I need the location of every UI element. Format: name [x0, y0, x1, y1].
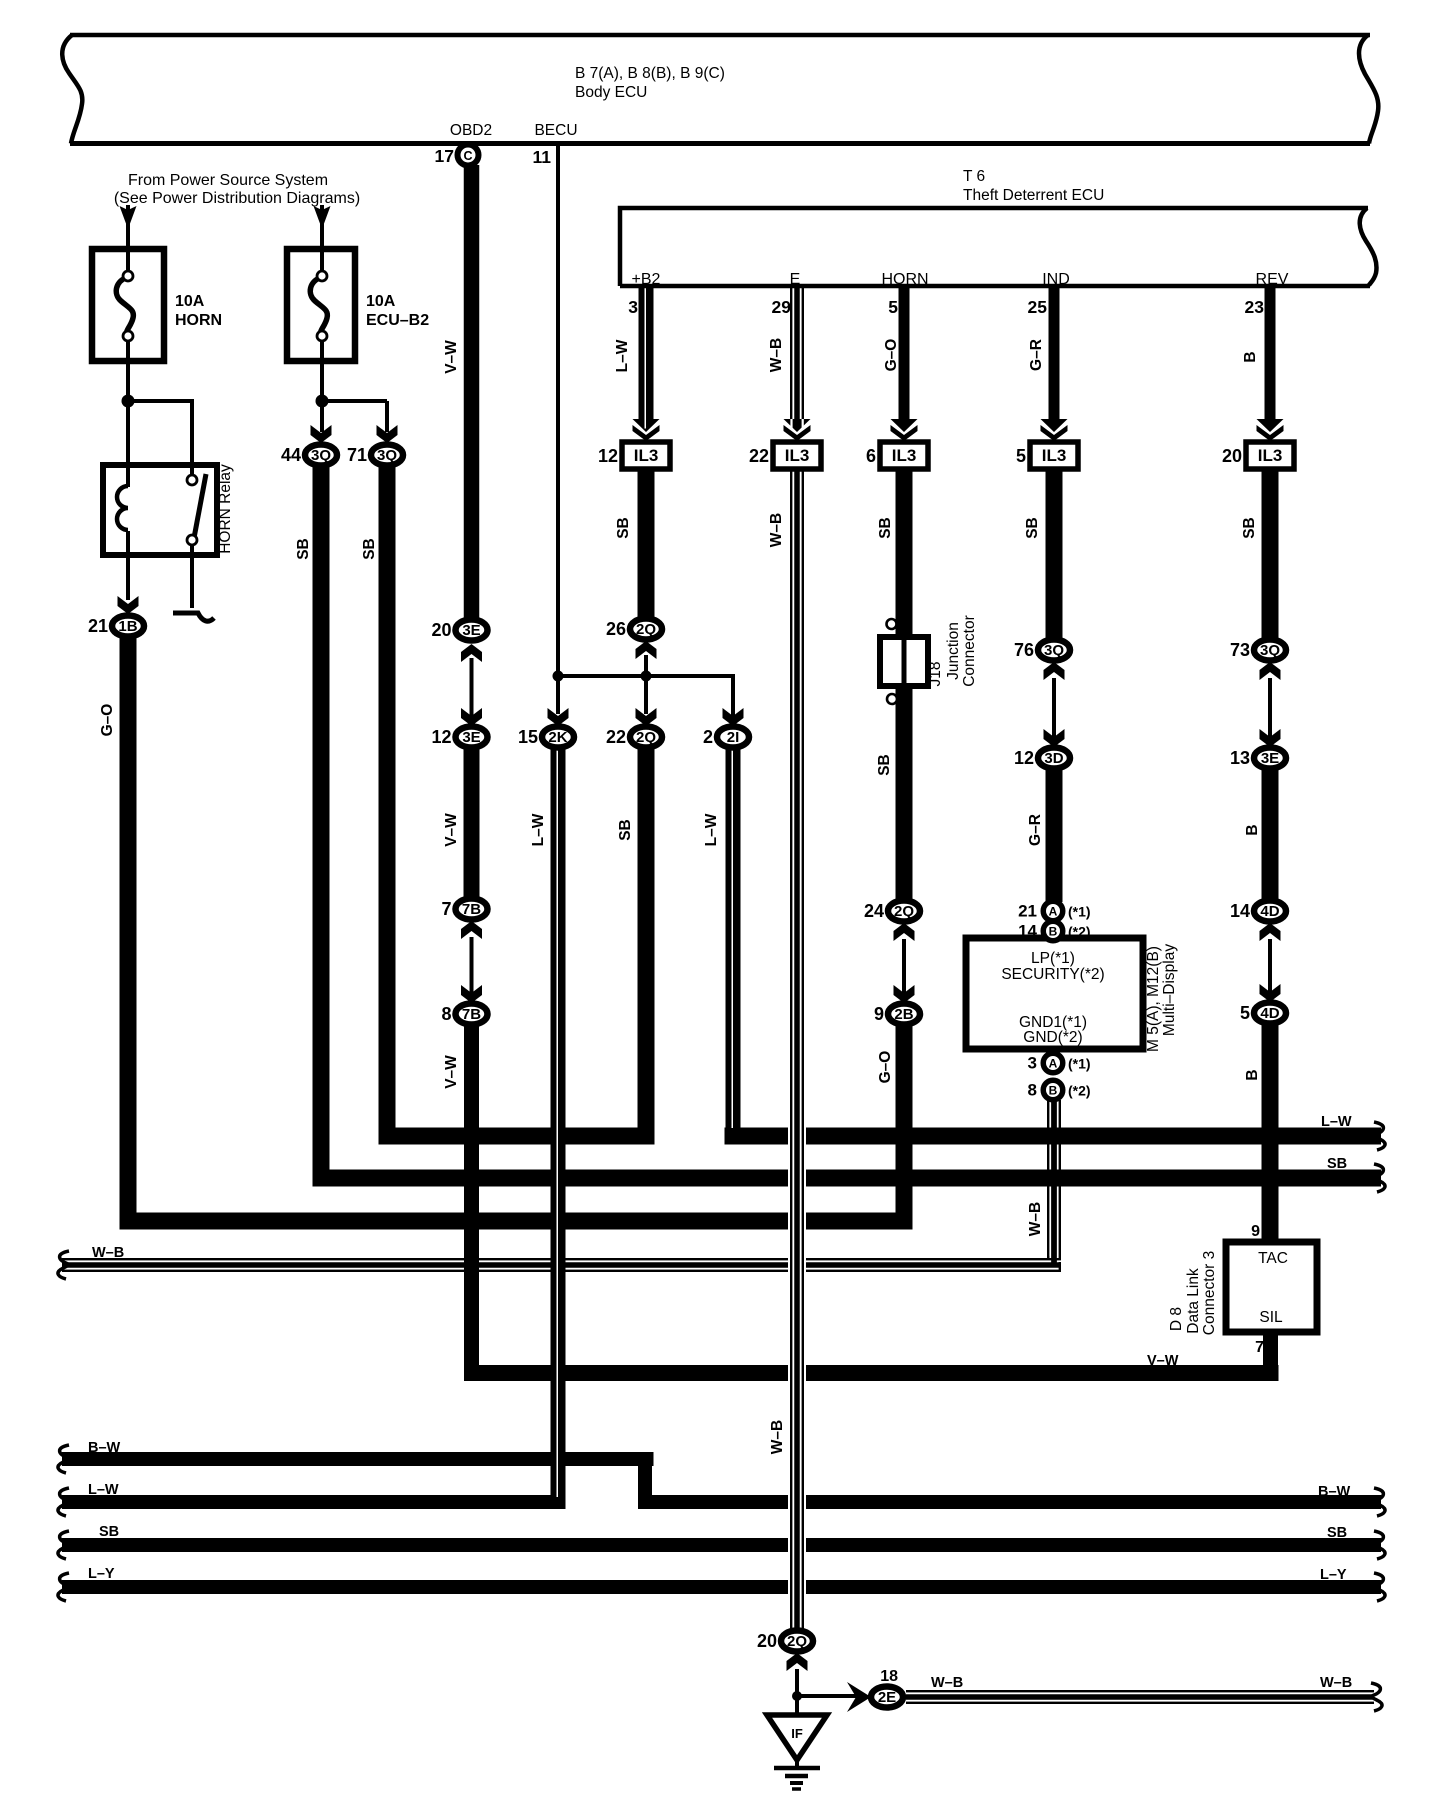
arrow into 20 IL3	[1257, 419, 1284, 432]
arrow down into 12 3D	[1044, 729, 1065, 747]
svg-text:(*2): (*2)	[1068, 924, 1091, 940]
svg-text:18: 18	[880, 1668, 898, 1685]
wire G-O stub HORN pin 5	[899, 286, 910, 420]
arrow into 22 IL3	[784, 419, 811, 432]
wire W-B ground bus horizontal	[62, 1258, 1061, 1260]
wire SB bus right wavy end	[1374, 1164, 1385, 1192]
wire L-W from 2 2I to L-W bus	[726, 748, 741, 1145]
svg-text:B: B	[1049, 1083, 1058, 1097]
svg-text:29: 29	[772, 297, 792, 317]
arrow into 44 3Q	[311, 425, 332, 443]
wire V-W 12 3E to 7 7B	[464, 746, 480, 900]
wire W-B from 2E to right edge	[906, 1690, 1374, 1692]
Body ECU box bottom edge	[70, 141, 1370, 146]
connector 12 3E	[456, 727, 488, 748]
svg-text:B: B	[1242, 351, 1259, 362]
svg-text:V–W: V–W	[443, 340, 460, 374]
wire G-R 12 3D to 21 A	[1046, 769, 1063, 902]
svg-text:11: 11	[533, 147, 552, 167]
svg-text:G–O: G–O	[877, 1051, 894, 1084]
svg-text:IF: IF	[791, 1726, 803, 1741]
wire B-W bus left wavy end	[58, 1445, 69, 1473]
relay coil	[126, 465, 130, 487]
svg-text:A: A	[1049, 1056, 1058, 1070]
svg-text:IL3: IL3	[634, 446, 659, 465]
wire SB 5 IL3 to 76 3Q	[1046, 469, 1063, 641]
arrow into 12 IL3	[633, 419, 660, 432]
svg-text:22: 22	[606, 727, 626, 747]
arrow down into 9 2B	[894, 985, 915, 1003]
svg-text:LP(*1): LP(*1)	[1031, 950, 1075, 967]
svg-text:SECURITY(*2): SECURITY(*2)	[1001, 966, 1104, 983]
svg-text:25: 25	[1028, 297, 1048, 317]
connector 24 2Q	[888, 901, 920, 922]
node ground junction	[792, 1691, 802, 1701]
svg-text:Connector 3: Connector 3	[1201, 1251, 1218, 1335]
connector 8 B	[1043, 1080, 1063, 1100]
multi-display security box	[966, 938, 1143, 1049]
connector 3 A	[1043, 1053, 1063, 1073]
svg-text:20: 20	[757, 1631, 777, 1651]
arrow down into 22 2Q	[636, 708, 657, 726]
ground earth symbol	[795, 1758, 799, 1768]
ground IF triangle	[767, 1715, 827, 1760]
svg-text:13: 13	[1230, 748, 1250, 768]
wire B-W bus lower right	[638, 1495, 1381, 1509]
arrow up into 14 4D	[1260, 923, 1281, 941]
wire into 71 3Q	[385, 401, 389, 432]
wire link 20 3E to 12 3E	[470, 658, 474, 716]
wire W-B 2E right wavy end	[1371, 1683, 1382, 1711]
svg-text:15: 15	[518, 727, 538, 747]
svg-text:SB: SB	[1327, 1525, 1347, 1541]
svg-text:GND(*2): GND(*2)	[1023, 1029, 1082, 1046]
wire B stub REV pin 23	[1265, 286, 1276, 420]
svg-text:3E: 3E	[1261, 750, 1279, 767]
wire L-Y bottom right wavy end	[1374, 1573, 1385, 1601]
arrow down into 2 2I	[723, 708, 744, 726]
wire V-W 8 7B to V-W bus	[464, 1023, 479, 1381]
wire 20 2Q to ground junction	[795, 1669, 799, 1698]
wire G-O from 21 1B to G-O bus	[120, 637, 137, 1230]
svg-text:Junction: Junction	[945, 622, 962, 680]
wire ECU-B2 fuse to junction	[320, 205, 324, 260]
connector 13 3E	[1254, 748, 1286, 769]
svg-text:IL3: IL3	[1258, 446, 1283, 465]
svg-text:2Q: 2Q	[787, 1633, 807, 1650]
wire junction to 2 2I	[731, 676, 735, 716]
wire W-B ground bus left wavy end	[58, 1251, 69, 1279]
wire link 24 2Q to 9 2B	[902, 939, 906, 993]
connector 21 1B	[112, 616, 144, 637]
svg-text:G–O: G–O	[883, 339, 900, 372]
svg-text:B: B	[1244, 824, 1261, 835]
svg-text:B 7(A), B 8(B), B 9(C): B 7(A), B 8(B), B 9(C)	[575, 65, 725, 82]
wire SB 12 IL3 to 26 2Q	[638, 469, 655, 620]
svg-text:HORN Relay: HORN Relay	[217, 464, 234, 554]
wire W-B from 8 B to W-B ground bus	[1047, 1100, 1049, 1258]
svg-text:5: 5	[1016, 446, 1026, 466]
wire ground junction to 2E	[797, 1694, 862, 1698]
wire V-W from OBD2 pin 17	[464, 165, 480, 621]
arrow up into 26 2Q	[636, 641, 657, 659]
Theft Deterrent ECU box	[620, 208, 1368, 286]
wire L-W stub +B2 pin 3	[639, 286, 654, 420]
svg-text:L–W: L–W	[614, 339, 631, 372]
wire BECU pin 11 down	[556, 146, 560, 678]
wire SB 22 2Q to SB link bus	[638, 748, 655, 1145]
svg-text:D 8: D 8	[1168, 1307, 1185, 1331]
svg-text:M 5(A), M12(B): M 5(A), M12(B)	[1145, 946, 1162, 1052]
svg-text:(*2): (*2)	[1068, 1083, 1091, 1099]
wire 26 2Q to junction	[644, 657, 648, 678]
svg-text:L–Y: L–Y	[1320, 1567, 1347, 1583]
svg-text:L–W: L–W	[530, 813, 547, 846]
svg-text:SB: SB	[615, 517, 632, 539]
svg-text:SB: SB	[1327, 1156, 1347, 1172]
svg-text:3E: 3E	[462, 622, 480, 639]
wire W-B from 22 IL3 to 20 2Q	[788, 469, 806, 1629]
wire ground junction to IF triangle	[795, 1696, 799, 1716]
wire relay coil lower lead	[126, 550, 130, 600]
svg-text:From Power Source System: From Power Source System	[128, 172, 328, 189]
svg-text:73: 73	[1230, 640, 1250, 660]
arrow into 71 3Q	[377, 425, 398, 443]
svg-text:Theft Deterrent ECU: Theft Deterrent ECU	[963, 187, 1104, 204]
svg-text:23: 23	[1245, 297, 1265, 317]
arrow up into 20 3E	[461, 644, 482, 662]
svg-text:L–W: L–W	[703, 813, 720, 846]
svg-text:12: 12	[1014, 748, 1034, 768]
svg-text:4D: 4D	[1260, 903, 1279, 920]
svg-text:6: 6	[866, 446, 876, 466]
fuse 10A HORN element	[116, 277, 133, 335]
svg-text:SIL: SIL	[1259, 1309, 1283, 1326]
svg-text:Connector: Connector	[961, 615, 978, 687]
wire L-W bus lower left	[62, 1495, 566, 1509]
wire V-W bus (OBD2 to SIL)	[465, 1365, 1279, 1381]
svg-text:14: 14	[1018, 922, 1037, 941]
wire SB bottom left wavy end	[58, 1531, 69, 1559]
wire HORN fuse to relay	[126, 205, 130, 260]
connector C at OBD2 pin 17	[458, 145, 479, 166]
svg-text:HORN: HORN	[881, 271, 928, 288]
svg-text:SB: SB	[295, 538, 312, 560]
svg-text:2: 2	[703, 727, 713, 747]
svg-text:W–B: W–B	[768, 513, 785, 547]
svg-text:BECU: BECU	[534, 122, 577, 139]
connector 15 2K	[542, 727, 574, 748]
svg-text:V–W: V–W	[443, 1055, 460, 1089]
svg-text:2K: 2K	[548, 729, 567, 746]
connector 21 A	[1043, 901, 1063, 921]
wire L-Y bottom left wavy end	[58, 1573, 69, 1601]
wire L-W bus left wavy end	[58, 1488, 69, 1516]
wire link 7 7B to 8 7B	[470, 937, 474, 993]
svg-text:9: 9	[874, 1004, 884, 1024]
arrow down into 13 3E	[1260, 729, 1281, 747]
wire SB 20 IL3 to 73 3Q	[1262, 469, 1279, 641]
svg-text:12: 12	[598, 446, 618, 466]
connector 7 7B	[456, 899, 488, 920]
svg-text:3Q: 3Q	[377, 447, 397, 464]
svg-text:7: 7	[441, 899, 451, 919]
connector 26 2Q	[630, 619, 662, 640]
arrow right into 18 2E	[847, 1682, 871, 1712]
wire SIL pin 7 to V-W bus	[1263, 1332, 1278, 1381]
svg-text:3E: 3E	[462, 729, 480, 746]
arrow into 5 IL3	[1041, 419, 1068, 432]
Theft ECU right wavy edge	[1360, 208, 1377, 286]
svg-text:71: 71	[347, 445, 367, 465]
data link connector D8 box	[1226, 1242, 1317, 1332]
arrow up into 76 3Q	[1044, 662, 1065, 680]
junction connector J18 top circle	[887, 619, 897, 629]
svg-text:W–B: W–B	[768, 338, 785, 372]
arrow up into 73 3Q	[1260, 662, 1281, 680]
svg-text:L–W: L–W	[88, 1482, 119, 1498]
svg-text:10A: 10A	[175, 293, 205, 310]
svg-text:L–W: L–W	[1321, 1114, 1352, 1130]
svg-text:SB: SB	[361, 538, 378, 560]
arrow into ECU-B2 fuse	[314, 206, 331, 229]
svg-text:V–W: V–W	[1147, 1353, 1179, 1369]
wire W-B corner at ground bus	[1047, 1256, 1049, 1259]
wire W-B stub E pin 29	[790, 286, 792, 424]
connector 71 3Q	[371, 445, 403, 466]
svg-text:+B2: +B2	[632, 271, 661, 288]
connector 20 IL3	[1246, 442, 1294, 469]
svg-text:J18: J18	[927, 662, 944, 687]
wire B-W jog vertical	[638, 1452, 652, 1509]
wire SB bus bottom	[62, 1538, 1381, 1552]
relay HORN Relay box	[103, 465, 217, 555]
wire relay switch upper lead	[190, 401, 194, 470]
svg-text:8: 8	[441, 1004, 451, 1024]
svg-text:(See Power Distribution Diagra: (See Power Distribution Diagrams)	[114, 190, 360, 207]
connector 9 2B	[888, 1004, 920, 1025]
Body ECU box right wavy edge	[1359, 35, 1378, 144]
svg-text:W–B: W–B	[1027, 1202, 1044, 1236]
svg-text:IL3: IL3	[785, 446, 810, 465]
svg-text:SB: SB	[617, 819, 634, 841]
wire relay branch horizontal	[128, 399, 194, 403]
arrow into 21 1B	[118, 596, 139, 614]
fuse 10A HORN box	[92, 249, 164, 361]
relay switch	[190, 465, 194, 476]
Body ECU box left wavy edge	[62, 35, 82, 144]
wire HORN fuse lower lead	[126, 350, 130, 465]
svg-text:7B: 7B	[462, 901, 481, 918]
junction connector J18 bottom circle	[887, 694, 897, 704]
wire into 44 3Q	[320, 401, 324, 432]
svg-text:1B: 1B	[118, 618, 137, 635]
wire SB bus (71 3Q to 22 2Q) horizontal	[379, 1128, 655, 1145]
svg-text:Body ECU: Body ECU	[575, 84, 647, 101]
node ECU-B2 fuse junction	[316, 395, 329, 408]
svg-text:3Q: 3Q	[1044, 642, 1064, 659]
wire ECU-B2 fuse lower lead	[320, 350, 324, 428]
wire B 5 4D to TAC pin 9	[1262, 1024, 1279, 1245]
wire SB 6 IL3 through J18 to 24 2Q	[896, 469, 913, 902]
wire relay switch open end hook	[173, 613, 214, 621]
svg-text:G–O: G–O	[99, 704, 116, 737]
svg-text:HORN: HORN	[175, 312, 222, 329]
svg-text:T 6: T 6	[963, 168, 985, 185]
svg-text:8: 8	[1028, 1081, 1037, 1100]
svg-text:B: B	[1049, 924, 1058, 938]
connector 14 4D	[1254, 901, 1286, 922]
wire link 14 4D to 5 4D	[1268, 939, 1272, 992]
svg-text:22: 22	[749, 446, 769, 466]
node HORN fuse junction	[122, 395, 135, 408]
arrow into 6 IL3	[891, 419, 918, 432]
connector 76 3Q	[1038, 640, 1070, 661]
svg-text:7B: 7B	[462, 1006, 481, 1023]
wire SB bottom right wavy end	[1374, 1531, 1385, 1559]
arrow up into 20 2Q	[787, 1653, 808, 1671]
svg-text:B: B	[1244, 1069, 1261, 1080]
svg-text:10A: 10A	[366, 293, 396, 310]
svg-text:SB: SB	[1024, 517, 1041, 539]
svg-text:SB: SB	[1241, 517, 1258, 539]
wire link 73 3Q to 13 3E	[1268, 678, 1272, 737]
svg-text:2E: 2E	[878, 1689, 896, 1706]
wire junction to 15 2K	[556, 676, 560, 714]
svg-text:L–Y: L–Y	[88, 1566, 115, 1582]
wire link 76 3Q to 12 3D	[1052, 678, 1056, 737]
arrow down into 8 7B	[461, 985, 482, 1003]
svg-text:76: 76	[1014, 640, 1034, 660]
wire L-W bus to right edge	[725, 1128, 1382, 1145]
wire L-W from 15 2K to L-W bus	[551, 748, 566, 1509]
arrow down into 5 4D	[1260, 984, 1281, 1002]
svg-text:12: 12	[431, 727, 451, 747]
junction connector J18 box	[880, 637, 928, 686]
svg-text:G–R: G–R	[1028, 339, 1045, 371]
svg-text:21: 21	[88, 616, 108, 636]
connector 44 3Q	[305, 445, 337, 466]
svg-text:E: E	[790, 271, 801, 288]
svg-text:Data Link: Data Link	[1185, 1268, 1202, 1334]
arrow up into 24 2Q	[894, 923, 915, 941]
svg-text:OBD2: OBD2	[450, 122, 492, 139]
wire junction line BECU node	[558, 674, 735, 678]
svg-text:ECU–B2: ECU–B2	[366, 312, 429, 329]
connector 5 4D	[1254, 1003, 1286, 1024]
svg-text:(*1): (*1)	[1068, 904, 1091, 920]
svg-text:2Q: 2Q	[636, 621, 656, 638]
connector 12 IL3	[622, 442, 670, 469]
svg-text:24: 24	[864, 901, 884, 921]
connector 14 B	[1043, 921, 1063, 941]
svg-text:W–B: W–B	[92, 1245, 124, 1261]
connector 20 3E	[456, 620, 488, 641]
svg-text:21: 21	[1018, 902, 1037, 921]
svg-text:C: C	[463, 149, 472, 163]
wire B 13 3E to 14 4D	[1262, 769, 1279, 902]
wire SB bus (44 3Q to right edge)	[313, 1170, 1382, 1187]
svg-text:SB: SB	[877, 517, 894, 539]
svg-text:5: 5	[888, 297, 898, 317]
svg-text:17: 17	[435, 146, 454, 166]
connector 8 7B	[456, 1004, 488, 1025]
fuse 10A ECU-B2 element	[310, 277, 327, 335]
wire junction to 22 2Q	[644, 676, 648, 714]
node 26 2Q junction	[641, 671, 652, 682]
arrow down into 15 2K	[548, 708, 569, 726]
wire L-Y bus bottom	[62, 1580, 1381, 1594]
svg-text:W–B: W–B	[931, 1675, 963, 1691]
svg-text:SB: SB	[99, 1524, 119, 1540]
connector 18 2E	[871, 1687, 903, 1708]
Body ECU box top edge	[70, 33, 1370, 38]
wire SB from 44 3Q to SB bus	[313, 466, 330, 1187]
svg-text:W–B: W–B	[1320, 1675, 1352, 1691]
wire link 26 2Q chevron stub	[644, 655, 648, 660]
svg-text:2I: 2I	[727, 729, 740, 746]
svg-text:7: 7	[1255, 1339, 1264, 1356]
svg-text:4D: 4D	[1260, 1005, 1279, 1022]
svg-text:3: 3	[628, 297, 638, 317]
svg-text:14: 14	[1230, 901, 1250, 921]
svg-text:2B: 2B	[894, 1006, 913, 1023]
svg-text:2Q: 2Q	[894, 903, 914, 920]
connector 22 IL3	[773, 442, 821, 469]
connector 22 2Q	[630, 727, 662, 748]
wire branch to 71 3Q horizontal	[322, 399, 387, 403]
svg-text:3: 3	[1028, 1054, 1037, 1073]
svg-text:26: 26	[606, 619, 626, 639]
wire G-O 9 2B to G-O bus	[896, 1025, 913, 1230]
svg-text:G–R: G–R	[1027, 814, 1044, 846]
svg-text:3Q: 3Q	[311, 447, 331, 464]
wire B-W bus right wavy end	[1374, 1488, 1385, 1516]
fuse 10A ECU-B2 box	[287, 249, 355, 361]
svg-text:2Q: 2Q	[636, 729, 656, 746]
svg-text:SB: SB	[876, 754, 893, 776]
connector 6 IL3	[880, 442, 928, 469]
wire SB from 71 3Q to L-W/SB link bus	[379, 466, 396, 1145]
svg-text:REV: REV	[1256, 271, 1289, 288]
wire G-R stub IND pin 25	[1049, 286, 1060, 420]
connector 5 IL3	[1030, 442, 1078, 469]
svg-text:IND: IND	[1042, 271, 1070, 288]
node BECU junction	[553, 671, 564, 682]
svg-text:20: 20	[431, 620, 451, 640]
svg-text:V–W: V–W	[443, 813, 460, 847]
wire B-W bus upper left	[62, 1452, 654, 1466]
wire G-O bus (HORN relay to 9 2B)	[120, 1213, 913, 1230]
svg-text:W–B: W–B	[769, 1420, 786, 1454]
connector 2 2I	[717, 727, 749, 748]
svg-text:44: 44	[281, 445, 301, 465]
svg-text:5: 5	[1240, 1003, 1250, 1023]
svg-text:9: 9	[1251, 1223, 1260, 1240]
arrow up into 7 7B	[461, 921, 482, 939]
wire relay switch lower lead	[190, 550, 194, 608]
svg-text:20: 20	[1222, 446, 1242, 466]
arrow down into 12 3E	[461, 708, 482, 726]
svg-text:IL3: IL3	[1042, 446, 1067, 465]
connector 20 2Q	[781, 1631, 813, 1652]
svg-text:TAC: TAC	[1258, 1250, 1288, 1267]
wire L-W bus right wavy end	[1374, 1122, 1385, 1150]
svg-text:B–W: B–W	[88, 1440, 121, 1456]
svg-text:IL3: IL3	[892, 446, 917, 465]
svg-text:3Q: 3Q	[1260, 642, 1280, 659]
svg-text:3D: 3D	[1044, 750, 1063, 767]
